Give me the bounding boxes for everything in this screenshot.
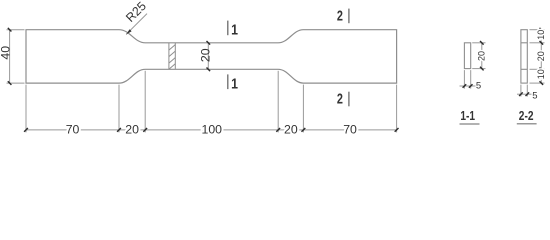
svg-text:1: 1 (231, 75, 238, 91)
svg-text:5: 5 (476, 80, 481, 91)
section 2-2 divider 1 (521, 42, 527, 44)
svg-text:70: 70 (66, 122, 80, 136)
weld seam hatch bar (169, 43, 175, 70)
section 1-1 title underline (460, 123, 480, 125)
dimension 40 extension lines (7, 30, 25, 83)
dimension 20 gauge line (207, 43, 209, 70)
section 2-2 title (519, 110, 534, 123)
section 2-2 divider 2 (521, 68, 527, 70)
section 1-1 dim 20 slashes (480, 41, 484, 70)
bottom chain slashes (24, 128, 398, 132)
svg-text:20: 20 (476, 51, 486, 61)
section 1 label bottom (231, 75, 238, 91)
section 2-2 dims extensions (530, 30, 545, 83)
section 2-2 dim slashes (540, 28, 544, 85)
section 1 tick bottom (227, 74, 229, 89)
svg-text:2-2: 2-2 (519, 110, 534, 123)
svg-text:100: 100 (202, 122, 223, 136)
svg-text:40: 40 (0, 46, 12, 60)
dimension 40 slashes (8, 28, 12, 85)
section 2 tick top (348, 9, 350, 24)
svg-text:10: 10 (536, 30, 546, 40)
section 1-1 dim 5 (460, 70, 476, 89)
section 2-2 dim 5 slashes (519, 92, 529, 96)
R25 leader (126, 14, 147, 35)
section 2 label bottom (337, 90, 343, 107)
svg-text:10: 10 (536, 69, 546, 79)
section 2-2 rectangle (521, 30, 527, 83)
svg-text:20: 20 (199, 48, 213, 62)
section 1 label top (231, 21, 238, 37)
section 2-2 title underline (517, 123, 537, 125)
svg-text:70: 70 (343, 122, 357, 136)
svg-text:20: 20 (125, 122, 139, 136)
svg-text:5: 5 (532, 90, 537, 101)
svg-text:2: 2 (337, 7, 343, 24)
bottom chain dimension line (26, 129, 397, 131)
specimen outline (26, 30, 397, 83)
svg-text:1-1: 1-1 (460, 110, 475, 123)
svg-text:20: 20 (536, 51, 546, 61)
section 1-1 title (460, 110, 475, 123)
dimension 40 line (9, 30, 11, 83)
svg-text:20: 20 (284, 122, 298, 136)
svg-text:1: 1 (231, 21, 238, 37)
section 1-1 dim 20 extensions (472, 43, 485, 69)
dimension 20 gauge slashes (207, 41, 211, 71)
section 2-2 dim 5 (517, 85, 532, 97)
section 1-1 rectangle (464, 43, 470, 69)
section 2 tick bottom (348, 92, 350, 107)
svg-text:R25: R25 (123, 0, 149, 25)
section 1 tick top (227, 21, 229, 36)
section 1-1 dim 5 slashes (463, 84, 473, 88)
bottom chain extension lines (26, 71, 397, 133)
R25 leader arrowhead (126, 29, 132, 34)
svg-text:2: 2 (337, 90, 343, 107)
section 2 label top (337, 7, 343, 24)
